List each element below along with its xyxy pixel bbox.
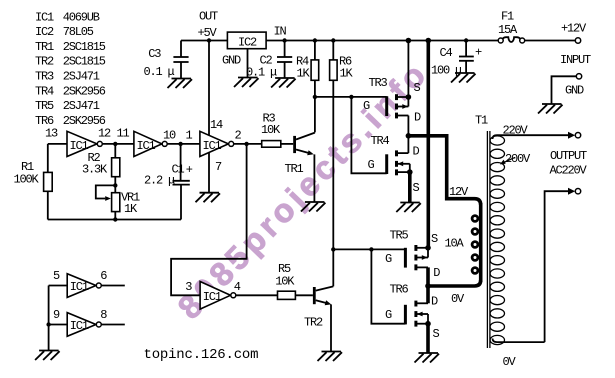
svg-text:TR4: TR4 [371,134,390,148]
svg-text:F1: F1 [501,10,514,24]
svg-text:IC1: IC1 [70,280,89,294]
svg-text:6: 6 [100,269,107,283]
svg-text:10K: 10K [261,123,281,137]
svg-text:2SJ471: 2SJ471 [63,70,100,84]
resistor R6 [330,38,354,80]
svg-text:D: D [413,145,420,159]
node TR1 collector / gate drive [313,95,317,99]
svg-text:13: 13 [45,127,58,141]
svg-text:12V: 12V [449,185,469,199]
label 200V tap [500,152,531,166]
svg-text:3: 3 [185,280,192,294]
svg-text:INPUT: INPUT [560,53,591,67]
svg-text:IC1: IC1 [70,319,89,333]
capacitor C3 [144,41,189,80]
transformer T1 core [486,131,488,348]
svg-text:G: G [385,252,392,266]
node TR5 source [425,245,431,251]
svg-text:GND: GND [222,54,241,68]
wire R6 bottom to TR2 collector [332,80,334,286]
transistor TR1 (2SC1815) [285,133,315,202]
node rail thick bus [426,38,432,44]
wire down to TR6 gate [371,249,405,323]
svg-text:IC1: IC1 [35,10,54,24]
ground (TR6) [415,353,440,363]
svg-text:topinc.126.com: topinc.126.com [144,347,259,363]
wire gate2 output [168,143,200,145]
capacitor C1 [144,144,193,220]
svg-text:TR5: TR5 [35,99,54,113]
node rail TR3-S [406,38,412,44]
svg-text:IC1: IC1 [70,139,89,153]
ground (C3) [168,79,193,89]
svg-text:4069UB: 4069UB [63,10,100,24]
node A TR3/TR4 drains [406,133,412,139]
resistor R4 [296,38,319,80]
svg-text:1K: 1K [340,67,354,81]
ground (pin7) [196,193,221,203]
node IN junction [282,38,286,42]
ground (input) [538,104,563,114]
node +5V junction [207,38,211,42]
svg-text:2SC1815: 2SC1815 [63,55,106,69]
svg-text:0V: 0V [503,355,517,369]
wire TR4 source to ground [408,172,412,202]
wire gate drive to TR3 [315,96,387,98]
transformer T1 secondary winding [490,136,504,345]
svg-text:T1: T1 [475,114,488,128]
svg-text:10: 10 [163,129,176,143]
svg-text:IN: IN [274,25,287,39]
node TR6 source [425,321,431,327]
svg-text:2SJ471: 2SJ471 [63,99,100,113]
svg-text:8: 8 [100,308,107,322]
wire R4 bottom to TR1 collector [314,80,316,132]
wire feedback pin2 to pin3 [171,144,247,295]
transistor TR5 (2SJ471) [385,229,440,281]
svg-text:OUT: OUT [199,10,218,24]
svg-text:C4: C4 [440,46,453,60]
inverter gate IC1 pins 13-12 [45,127,111,157]
svg-text:10K: 10K [275,275,295,289]
ground (TR4) [396,203,421,213]
svg-text:TR4: TR4 [35,84,54,98]
svg-text:S: S [414,81,421,95]
svg-text:IC2: IC2 [35,25,54,39]
svg-text:TR1: TR1 [285,162,304,176]
terminal GND input [576,74,581,79]
wire pin13 input [48,143,67,145]
svg-text:12: 12 [98,127,111,141]
svg-text:11: 11 [117,127,130,141]
inverter gate IC1 pins 5-6 [53,269,107,297]
wire pin14 supply [208,41,210,137]
wire gate4 input [49,285,68,287]
svg-text:GND: GND [565,84,584,98]
potentiometer VR1 [96,185,140,219]
svg-text:TR2: TR2 [35,55,54,69]
wire IC2 GND pin [247,49,249,78]
transistor TR2 (2SC1815) [304,286,333,351]
svg-text:14: 14 [210,118,223,132]
svg-text:G: G [368,158,375,172]
wire GND input [552,76,577,104]
svg-text:1: 1 [186,129,193,143]
wire bottom rail [48,219,181,221]
svg-text:IC1: IC1 [203,290,222,304]
svg-text:1K: 1K [124,202,138,216]
svg-text:0V: 0V [451,292,465,306]
node TR4 source [407,169,413,175]
svg-text:OUTPUT: OUTPUT [550,149,587,163]
terminal output neutral [575,189,580,194]
svg-text:IC1: IC1 [203,139,222,153]
svg-text:7: 7 [215,160,222,174]
svg-text:2SK2956: 2SK2956 [63,84,106,98]
svg-text:220V: 220V [503,124,529,138]
svg-text:TR5: TR5 [390,229,409,243]
transformer T1 primary winding [445,185,481,306]
ground (C4) [451,73,476,83]
node TR3 source [406,94,412,100]
parts list [35,10,106,128]
resistor R5 [275,262,313,299]
svg-text:78L05: 78L05 [63,25,94,39]
svg-text:2: 2 [235,129,242,143]
inverter gate IC1 pins 1-2 [186,118,242,174]
node pin10/1 [178,142,182,146]
wire pin7 to ground [208,153,210,193]
wire TR5 drain to node B [426,267,430,286]
transistor TR3 (2SJ471) [363,76,421,136]
svg-text:15A: 15A [498,23,518,37]
resistor R1 [14,144,53,220]
terminal output live [575,133,580,138]
node pin2 [244,142,248,146]
wire gate6 output [236,294,277,296]
svg-text:5: 5 [53,269,60,283]
wire gate5 output [102,324,125,326]
svg-text:S: S [431,232,438,246]
svg-text:TR1: TR1 [35,40,54,54]
node gate splice TR3/TR4 [349,95,353,99]
wire +12V rail right of fuse [525,40,576,42]
regulator IC2 [198,10,287,68]
svg-text:G: G [385,308,392,322]
svg-text:D: D [431,295,438,309]
terminal +12V [575,38,580,43]
wire 220V tap to output [493,135,571,139]
svg-text:TR3: TR3 [35,70,54,84]
inverter gate IC1 pins 9-8 [53,308,107,336]
svg-text:100K: 100K [14,173,40,187]
svg-text:IC1: IC1 [137,139,156,153]
node B TR5/TR6 drains [425,283,431,289]
svg-text:TR2: TR2 [304,316,323,330]
node TR2 collector / gate drive [331,247,335,251]
svg-text:S: S [413,181,420,195]
inverter gate IC1 pins 11-10 [117,127,177,157]
wire +12V rail middle [266,40,498,42]
svg-text:4: 4 [234,280,241,294]
resistor R3 [261,112,293,148]
wire +5V rail left [181,40,227,42]
wire TR6 source to ground [426,324,430,353]
ground (TR2) [318,352,343,362]
svg-text:9: 9 [53,308,60,322]
svg-text:TR6: TR6 [390,283,409,297]
arrow output neutral [568,188,575,195]
ground (IC2) [234,78,259,88]
resistor R2 [82,144,120,186]
node R2/VR1 [113,183,117,187]
svg-text:+5V: +5V [198,26,218,40]
capacitor C4 [431,38,482,77]
svg-text:G: G [363,99,370,113]
node VR1 bottom [113,217,117,221]
ground (C2) [271,78,296,88]
transistor TR4 (2SK2956) [368,134,420,195]
svg-text:+: + [186,163,193,177]
svg-text:3.3K: 3.3K [82,163,108,177]
wire +12V thick bus to TR5 source [426,41,430,248]
wire node A to transformer 12V tap [408,136,480,205]
wire 0V secondary to output [493,191,569,342]
node pin12/11 [113,142,117,146]
svg-text:2SC1815: 2SC1815 [63,40,106,54]
svg-text:1K: 1K [297,67,311,81]
svg-text:D: D [414,111,421,125]
wire gate4 output [102,285,125,287]
capacitor C2 [246,41,292,80]
wire gate5 input tie [48,286,50,351]
svg-text:0.1 μ: 0.1 μ [144,65,175,79]
wire node B to transformer 0V tap [428,280,481,286]
wire down to TR4 gate [351,97,386,173]
fuse F1 15A [498,10,525,44]
svg-text:S: S [433,327,440,341]
svg-text:AC220V: AC220V [550,164,588,178]
svg-text:TR3: TR3 [369,76,388,90]
wire TR3 source to rail [407,41,409,98]
arrow output live [568,132,575,139]
wire gate1 output [103,143,134,145]
ground (unused gates) [35,351,60,361]
svg-text:2.2 μ: 2.2 μ [144,174,175,188]
svg-text:10A: 10A [445,237,465,251]
wire gate drive to TR5 [333,248,405,250]
svg-text:0.1 μ: 0.1 μ [246,66,277,80]
wire gate3 output [234,143,262,145]
svg-text:D: D [433,266,440,280]
svg-text:+: + [475,46,482,60]
inverter gate IC1 pins 3-4 [185,280,241,309]
node gate splice TR5/TR6 [369,247,373,251]
svg-text:C3: C3 [148,47,161,61]
transistor TR6 (2SK2956) [385,283,440,342]
node gate5 input [46,322,50,326]
svg-text:+12V: +12V [561,22,587,36]
svg-text:200V: 200V [505,152,531,166]
svg-text:IC2: IC2 [238,36,257,50]
ground (TR1) [301,202,326,212]
